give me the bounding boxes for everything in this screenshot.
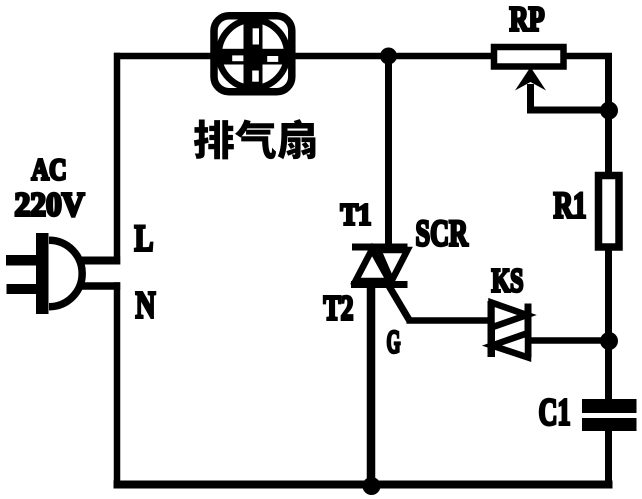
potentiometer RP body [494, 47, 564, 67]
wire triac anode drop [385, 56, 392, 250]
wire RP wiper horizontal [527, 107, 611, 114]
capacitor C1 bottom plate [582, 418, 637, 431]
wire bottom bus [114, 481, 613, 489]
label RP [510, 0, 545, 38]
wire top bus [114, 53, 612, 60]
svg-text:AC: AC [32, 153, 67, 187]
wire right bus [605, 53, 612, 488]
diac right bar [525, 304, 532, 358]
svg-text:SCR: SCR [416, 212, 469, 253]
wire triac cathode drop [367, 282, 376, 486]
wire gate diagonal [383, 276, 410, 321]
plug AC source [6, 233, 82, 314]
wire left bus upper [114, 53, 121, 265]
svg-text:KS: KS [492, 263, 524, 300]
label R1 [554, 184, 587, 225]
triac down triangle [378, 250, 408, 281]
capacitor C1 top plate [582, 399, 637, 413]
svg-text:RP: RP [510, 0, 545, 38]
potentiometer RP wiper arrow [515, 67, 546, 91]
node junction wiper/right bus [600, 102, 618, 120]
svg-text:N: N [136, 284, 156, 326]
svg-text:L: L [135, 219, 154, 259]
wire plug live lead [80, 257, 120, 265]
label C1 [539, 392, 571, 434]
label T2 [324, 287, 354, 327]
node junction KS/right bus [600, 332, 618, 350]
wire left bus lower [114, 282, 121, 488]
fan M exhaust-fan symbol [212, 14, 294, 94]
label 220V [15, 187, 85, 224]
label G [387, 324, 401, 360]
triac up triangle [356, 250, 390, 282]
label KS [492, 263, 524, 300]
node junction top (triac to top bus) [380, 48, 397, 65]
capacitor C1 gap mask [598, 412, 620, 420]
diac top triangle [492, 303, 528, 328]
node junction triac/bottom bus [363, 477, 381, 495]
wire plug neutral lead [80, 282, 120, 290]
svg-text:T2: T2 [324, 287, 354, 327]
diac left bar [488, 301, 496, 357]
wire RP wiper stem [527, 84, 534, 114]
svg-text:R1: R1 [554, 184, 587, 225]
diac KS [488, 301, 532, 358]
triac top bar T1 [352, 244, 408, 251]
resistor R1 body [599, 176, 620, 248]
svg-text:T1: T1 [341, 198, 372, 232]
wire gate horizontal [407, 317, 492, 324]
triac bottom bar T2 [351, 281, 408, 288]
label 排气扇 (exhaust fan, vector glyphs) [194, 119, 316, 159]
label SCR [416, 212, 469, 253]
diac bottom triangle [492, 333, 528, 358]
svg-text:G: G [387, 324, 401, 360]
label N [136, 284, 156, 326]
svg-text:220V: 220V [15, 187, 85, 224]
label T1 [341, 198, 372, 232]
label AC [32, 153, 67, 187]
wire KS to right bus [528, 337, 611, 344]
svg-text:C1: C1 [539, 392, 571, 434]
triac SCR [351, 244, 408, 289]
label L [135, 219, 154, 259]
